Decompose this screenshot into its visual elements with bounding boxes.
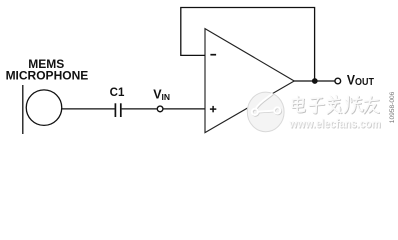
- node VIN terminal: [157, 106, 163, 112]
- op-amp U1: [205, 29, 294, 133]
- op-amp noninverting input symbol (+): [210, 106, 216, 112]
- svg-text:C1: C1: [110, 87, 125, 99]
- feedback wire from output node to inverting input: [181, 8, 315, 81]
- watermark logo circle: [247, 92, 284, 132]
- VOUT terminal: [335, 78, 341, 84]
- svg-text:MICROPHONE: MICROPHONE: [6, 68, 89, 82]
- op-amp inverting input symbol (-): [210, 54, 216, 56]
- svg-text:10958-006: 10958-006: [389, 91, 396, 123]
- MEMS microphone: [23, 85, 62, 134]
- wire microphone to C1: [62, 108, 115, 110]
- output wire: [294, 80, 335, 82]
- junction dot at output node: [312, 78, 318, 84]
- watermark chinese text: [292, 95, 379, 114]
- capacitor C1: [115, 103, 120, 117]
- wire VIN to op-amp noninverting input: [163, 108, 205, 110]
- watermark url: [288, 118, 381, 132]
- wire C1 to node VIN: [122, 108, 157, 110]
- label MEMS MICROPHONE: [6, 57, 89, 82]
